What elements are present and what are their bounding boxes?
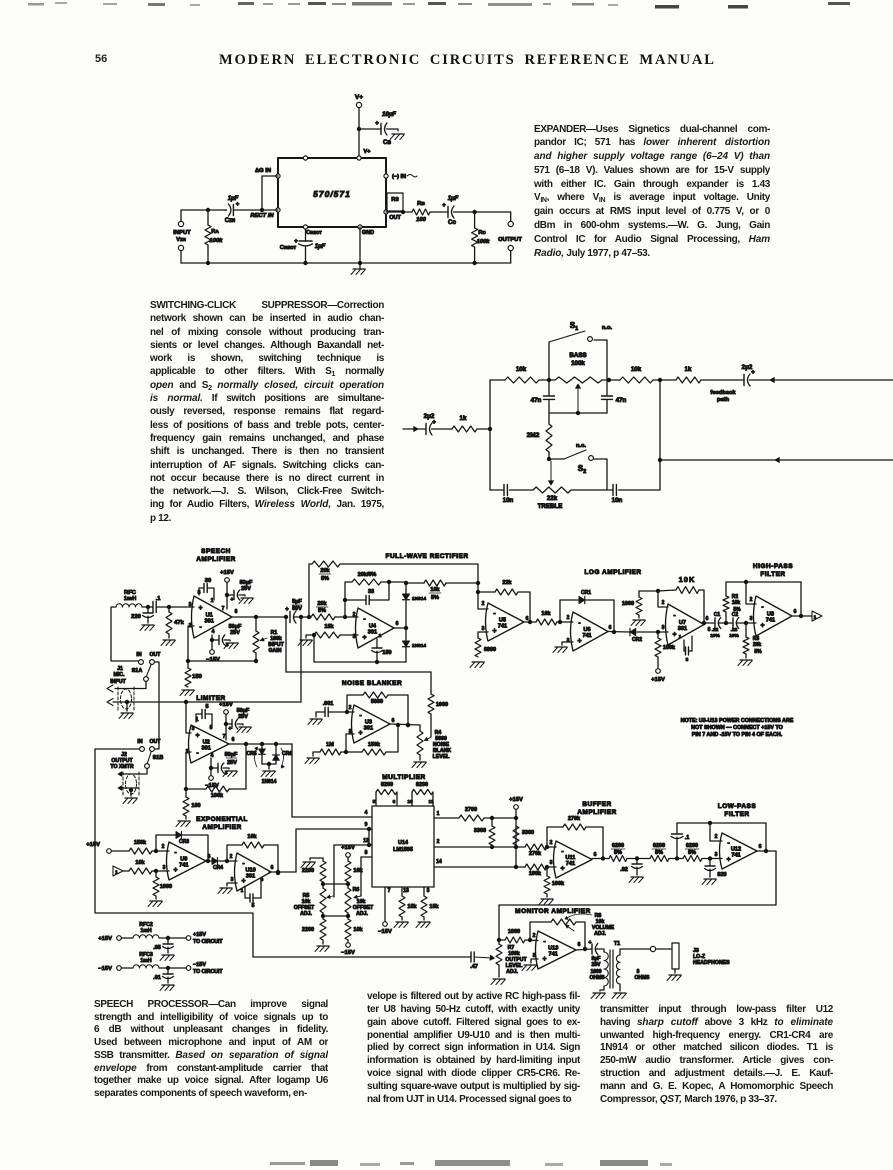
jack J3 plug <box>672 943 679 969</box>
ground under R3 <box>745 654 747 658</box>
ground under 47k <box>163 639 175 641</box>
jack J2 dashed body <box>126 774 137 794</box>
svg-text:+: + <box>358 730 362 737</box>
svg-text:9: 9 <box>365 822 368 828</box>
capacitor 220 to ground <box>147 607 149 613</box>
svg-text:CR4: CR4 <box>213 865 223 871</box>
U14 pin8 wire to R6 wiper <box>361 856 372 858</box>
svg-text:301: 301 <box>368 630 377 636</box>
resistor 2700 <box>459 815 484 821</box>
wire to 1k right <box>653 379 676 381</box>
svg-text:6: 6 <box>396 621 399 627</box>
svg-text:+15V: +15V <box>219 702 233 708</box>
svg-text:1mH: 1mH <box>124 596 137 602</box>
diode CR4 <box>212 858 217 865</box>
U12 pin2 drop <box>710 823 722 841</box>
resistor 1000 monitor <box>499 939 505 941</box>
pin top-left <box>303 156 307 160</box>
resistor 150k to +15V <box>655 638 661 657</box>
svg-text:5%: 5% <box>431 595 439 601</box>
svg-text:3: 3 <box>533 953 536 959</box>
svg-text:S2: S2 <box>578 464 586 475</box>
mic sleeve contact arrow <box>107 699 113 706</box>
svg-text:6200: 6200 <box>612 843 624 849</box>
svg-text:50V: 50V <box>292 606 302 612</box>
svg-text:301: 301 <box>202 746 211 752</box>
svg-text:-: - <box>174 850 177 857</box>
svg-text:150k: 150k <box>368 742 381 748</box>
wire to .1 node <box>669 858 683 860</box>
svg-text:1: 1 <box>211 598 214 604</box>
ground under 100k <box>546 894 548 897</box>
svg-text:2: 2 <box>349 705 352 711</box>
svg-text:8: 8 <box>365 850 368 856</box>
svg-text:301: 301 <box>205 619 214 625</box>
svg-text:feedback: feedback <box>710 390 736 396</box>
mic sleeve wire to limiter line <box>113 701 301 703</box>
svg-text:Cʀᴇᴄᴛ: Cʀᴇᴄᴛ <box>306 230 322 236</box>
resistor 100 exponential <box>185 789 187 797</box>
node R5 top <box>322 882 324 888</box>
svg-text:NOTE: U3-U13 POWER CONNECTIONS: NOTE: U3-U13 POWER CONNECTIONS ARE <box>681 718 794 724</box>
op-amp U2 301 <box>189 725 230 763</box>
svg-text:3: 3 <box>427 888 430 894</box>
U13 output <box>576 949 592 950</box>
resistor 3300 second <box>513 826 519 845</box>
svg-text:7: 7 <box>223 734 226 740</box>
svg-text:10k: 10k <box>430 587 440 593</box>
wire cap to T1 <box>595 949 604 952</box>
potentiometer R5 10k offset <box>320 888 326 913</box>
svg-text:13: 13 <box>403 888 409 894</box>
jack J2 sleeve dot <box>129 788 133 792</box>
svg-text:10k: 10k <box>631 366 642 373</box>
svg-text:2: 2 <box>567 615 570 621</box>
svg-text:HEADPHONES: HEADPHONES <box>693 960 730 966</box>
U7 output to C1 <box>704 622 715 624</box>
S1A wire to mic tip <box>115 682 146 689</box>
noise blanker feed wire <box>286 671 431 673</box>
resistor 1k input <box>452 426 477 432</box>
svg-text:1k: 1k <box>685 366 692 373</box>
svg-text:1: 1 <box>814 615 817 621</box>
wire to U4 pin2 <box>335 616 358 618</box>
svg-text:3: 3 <box>189 602 192 608</box>
wire RB to CO <box>430 211 448 213</box>
resistor 8200 right loop <box>411 792 413 806</box>
svg-text:10k: 10k <box>247 834 257 840</box>
svg-text:1: 1 <box>679 634 682 640</box>
mic tip contact arrow <box>107 685 113 692</box>
diode CR2 <box>630 628 636 635</box>
J2 ring arrow <box>118 786 122 791</box>
ground under .01 <box>162 984 174 986</box>
R5 wiper riser <box>333 845 335 897</box>
svg-text:NOISE BLANKER: NOISE BLANKER <box>342 680 402 687</box>
wire to 10k <box>123 870 129 872</box>
U7 comp cap pins <box>683 640 685 651</box>
svg-text:10k: 10k <box>732 600 741 606</box>
svg-text:10μF: 10μF <box>382 112 396 118</box>
svg-text:3300: 3300 <box>474 828 486 834</box>
input off-page triangle 1 <box>113 866 123 876</box>
svg-text:10k: 10k <box>135 860 145 866</box>
svg-text:+: + <box>432 419 436 426</box>
svg-text:6: 6 <box>393 799 396 805</box>
svg-text:150k: 150k <box>134 840 147 846</box>
wire gnd to 15k <box>306 635 314 638</box>
U14 pin14 wire <box>434 866 525 868</box>
resistor R3 20k 5% <box>745 623 747 637</box>
U2 pin4 down <box>210 758 212 775</box>
ground under R7 <box>498 965 500 977</box>
wire to U1 pin3 <box>156 606 194 608</box>
ground under 6800 <box>472 661 484 663</box>
ground under .02 <box>631 876 643 878</box>
svg-text:Cɪɴ: Cɪɴ <box>225 218 236 224</box>
svg-text:+: + <box>198 605 202 612</box>
svg-text:1μF: 1μF <box>315 244 326 250</box>
low-pass feedback vertical <box>765 823 767 851</box>
svg-text:15k: 15k <box>407 904 417 910</box>
wire U10 out up to U14 pin9 <box>296 829 372 872</box>
+15V terminal below 150k <box>656 669 661 674</box>
svg-text:301: 301 <box>246 874 255 880</box>
capacitor .1 bridge <box>676 840 678 859</box>
svg-text:1: 1 <box>241 888 244 894</box>
svg-text:6: 6 <box>578 942 581 948</box>
svg-text:AMPLIFIER: AMPLIFIER <box>202 824 242 831</box>
svg-text:Cʀᴇᴄᴛ: Cʀᴇᴄᴛ <box>280 245 297 251</box>
svg-text:5%: 5% <box>688 850 696 856</box>
resistor 47k to ground <box>168 607 170 612</box>
svg-text:n.c.: n.c. <box>576 443 586 449</box>
rail to 22k <box>510 489 534 491</box>
svg-text:741: 741 <box>498 624 507 630</box>
+15V to circuit terminal <box>186 936 191 941</box>
low-pass top rail <box>677 822 766 824</box>
svg-text:+: + <box>173 867 177 874</box>
svg-text:+: + <box>560 865 564 872</box>
svg-text:IN: IN <box>137 739 142 745</box>
pin2 drop wire <box>746 582 756 604</box>
svg-text:+: + <box>672 631 676 638</box>
J2 ring wire <box>121 787 138 789</box>
svg-text:6: 6 <box>526 616 529 622</box>
ground at CB <box>392 133 404 135</box>
svg-text:2: 2 <box>437 839 440 845</box>
U4 bottom loop <box>314 635 406 662</box>
svg-text:100k: 100k <box>211 793 224 799</box>
svg-text:1k: 1k <box>460 415 467 422</box>
wire to 150k <box>112 850 130 852</box>
S1B wire to J2 tip <box>121 769 147 775</box>
wire 1M to U3 pin3 <box>341 751 346 753</box>
U3 feedback 5600 <box>347 695 363 712</box>
svg-text:CR2: CR2 <box>632 637 642 643</box>
svg-text:2μ2: 2μ2 <box>424 413 435 420</box>
svg-text:6: 6 <box>235 609 238 615</box>
resistor 150 to ground <box>187 661 189 668</box>
U10 feedback 10k <box>227 845 242 861</box>
bypass cap 50uF U2 top <box>226 723 232 725</box>
U12 output <box>757 850 776 852</box>
scan artifacts bottom edge <box>270 1162 305 1165</box>
svg-text:20k: 20k <box>320 568 330 574</box>
wire CR4 to U10 <box>218 860 237 862</box>
ground at .001 cap <box>310 718 322 720</box>
diode 1N914 upper <box>405 583 407 593</box>
resistor R3 box <box>387 193 403 211</box>
svg-text:8: 8 <box>708 627 711 633</box>
wire 150k to U9 pin2 <box>152 850 169 852</box>
svg-text:FILTER: FILTER <box>760 571 785 578</box>
svg-text:AMPLIFIER: AMPLIFIER <box>196 556 236 563</box>
switch S1 left vertical <box>548 342 550 380</box>
pin CRECT bottom <box>303 225 307 229</box>
output terminal bottom <box>508 245 513 250</box>
wire to jack J3 <box>656 948 673 950</box>
svg-text:6: 6 <box>609 625 612 631</box>
diode CR5 clipper <box>261 744 263 749</box>
U2 output wire <box>229 743 292 745</box>
svg-text:ADJ.: ADJ. <box>506 969 518 975</box>
svg-text:+: + <box>726 857 730 864</box>
wire 150k to output <box>386 725 398 752</box>
svg-text:ΔG IN: ΔG IN <box>255 168 271 174</box>
svg-text:.22: .22 <box>712 627 719 633</box>
resistor 15k pin3 <box>423 887 425 896</box>
wire 1000 to 10K node <box>639 590 658 592</box>
svg-text:U14: U14 <box>398 840 408 846</box>
transformer T1 secondary <box>616 955 620 984</box>
capacitor 47n right <box>606 380 608 396</box>
U1 pin4 wire to -15V <box>211 635 213 649</box>
svg-text:+15V: +15V <box>220 570 234 576</box>
resistor 22k feedback U5 <box>478 591 495 593</box>
svg-text:C1: C1 <box>714 612 721 618</box>
wire to bass pot <box>539 379 555 381</box>
svg-text:+: + <box>542 956 546 963</box>
wire rfc to cap <box>142 606 153 608</box>
wire limiter input <box>186 702 191 733</box>
svg-text:−15V: −15V <box>341 950 355 956</box>
ground symbol <box>353 268 365 270</box>
svg-text:1000: 1000 <box>622 601 634 607</box>
bottom rail left <box>490 489 504 491</box>
potentiometer R1 100k input gain <box>255 617 257 631</box>
switch S2 contact <box>589 456 594 461</box>
resistor 2200 upper <box>322 858 324 861</box>
svg-text:8200: 8200 <box>416 782 428 788</box>
svg-text:.22: .22 <box>731 627 738 633</box>
U13 pin3 ground <box>531 959 538 963</box>
page number <box>95 53 107 65</box>
svg-text:.01: .01 <box>153 975 161 981</box>
node R5 bottom <box>322 913 324 919</box>
ground at 15k <box>300 639 312 641</box>
svg-text:6200: 6200 <box>686 843 698 849</box>
svg-text:EXPONENTIAL: EXPONENTIAL <box>196 816 248 823</box>
jack J1 ground <box>126 702 128 711</box>
wire OUT to RB <box>386 211 412 213</box>
U10 pin3 ground <box>227 883 237 886</box>
svg-text:.02: .02 <box>620 867 628 873</box>
svg-text:2: 2 <box>715 834 718 840</box>
svg-text:.05: .05 <box>153 945 161 951</box>
node R6 bottom <box>347 913 349 919</box>
svg-text:3: 3 <box>750 616 753 622</box>
potentiometer R6 10k offset <box>345 888 351 913</box>
svg-text:10n: 10n <box>503 497 514 504</box>
svg-text:V+: V+ <box>355 94 363 101</box>
wire 10k to U9 pin3 <box>152 870 169 872</box>
capacitor .01 <box>167 968 169 974</box>
R5 top ground <box>310 858 323 860</box>
svg-text:6: 6 <box>208 854 211 860</box>
svg-text:+15V: +15V <box>509 797 523 803</box>
svg-text:47n: 47n <box>616 397 627 404</box>
U8 output node <box>792 615 812 617</box>
svg-text:1: 1 <box>379 633 382 639</box>
bypass cap 50uF 25V at U1 top <box>227 594 234 596</box>
ground under pin3 15k <box>418 921 430 923</box>
ground under 100 <box>185 816 187 819</box>
svg-text:570/571: 570/571 <box>313 189 351 199</box>
svg-text:12: 12 <box>363 838 369 844</box>
svg-text:−15V: −15V <box>193 962 206 968</box>
resistor 100k input <box>525 864 547 870</box>
switch S1 contact <box>588 337 593 342</box>
resistor 10K log feedback <box>658 590 676 591</box>
diode CR3 feedback loop <box>156 835 176 851</box>
op-amp U12 741 <box>720 833 758 869</box>
running head title <box>219 52 715 69</box>
svg-text:2200: 2200 <box>302 927 314 933</box>
diode CR6 clipper <box>275 744 277 755</box>
svg-text:FILTER: FILTER <box>724 811 749 818</box>
node R6 top <box>347 882 349 888</box>
U1 output wire <box>232 616 286 618</box>
secondary terminal <box>650 946 655 951</box>
ground pin4 bypass U2 <box>225 770 237 772</box>
V+ supply terminal <box>356 102 361 107</box>
svg-text:5%: 5% <box>318 608 326 614</box>
ground under 2200 <box>322 940 324 944</box>
pin OUT <box>384 210 388 214</box>
svg-text:Cʙ: Cʙ <box>383 140 391 146</box>
svg-text:10%: 10% <box>729 633 739 639</box>
capacitor .1 coupling <box>152 602 154 613</box>
svg-text:+: + <box>228 726 231 732</box>
capacitor 10n left <box>503 485 505 496</box>
svg-text:.47: .47 <box>470 964 478 970</box>
svg-text:PIN 7 AND -15V TO PIN 4 OF EAC: PIN 7 AND -15V TO PIN 4 OF EACH. <box>692 732 783 738</box>
svg-text:TREBLE: TREBLE <box>538 503 563 510</box>
svg-text:1000: 1000 <box>508 929 520 935</box>
svg-text:LOG AMPLIFIER: LOG AMPLIFIER <box>584 569 641 576</box>
svg-text:6: 6 <box>594 852 597 858</box>
op-amp U11 741 <box>554 841 593 878</box>
T1 primary bottom to ground <box>600 986 604 991</box>
svg-text:5600: 5600 <box>371 699 383 705</box>
svg-text:OHMS: OHMS <box>635 975 651 981</box>
svg-text:301: 301 <box>678 626 687 632</box>
output off-page triangle 1 <box>812 611 822 621</box>
wire node down to U7 pin2 <box>658 591 668 607</box>
svg-text:+: + <box>492 628 496 635</box>
svg-text:25V: 25V <box>241 586 251 592</box>
svg-text:47n: 47n <box>531 397 542 404</box>
T1 secondary bottom <box>619 984 621 991</box>
svg-text:ADJ.: ADJ. <box>356 911 368 917</box>
pin (-) IN <box>384 174 388 178</box>
svg-text:8200: 8200 <box>381 782 393 788</box>
svg-text:TO CIRCUIT: TO CIRCUIT <box>193 939 223 945</box>
resistor 20k 5% input <box>311 614 335 620</box>
svg-text:S1A: S1A <box>132 668 143 674</box>
wire 10K to U7 output <box>699 590 704 623</box>
svg-text:OUT: OUT <box>389 215 401 221</box>
svg-text:1N914: 1N914 <box>412 643 426 649</box>
ground for pin4 bypass <box>226 642 238 644</box>
svg-text:-: - <box>359 713 362 720</box>
potentiometer R7 100k output level <box>498 940 500 944</box>
wire rectifier out down to U5 <box>478 592 488 609</box>
resistor 150k noise blanker <box>346 751 362 753</box>
clipper arc right <box>281 748 284 767</box>
inductor RFC2 1mH <box>122 937 134 939</box>
svg-text:1mH: 1mH <box>140 928 151 934</box>
output terminal top <box>510 212 512 222</box>
svg-text:6: 6 <box>759 844 762 850</box>
svg-text:R3: R3 <box>391 197 399 203</box>
svg-text:741: 741 <box>566 861 575 867</box>
svg-text:1000: 1000 <box>160 884 172 890</box>
U6 pin3 ground <box>562 642 573 645</box>
ground under 820 <box>704 878 716 880</box>
svg-text:270k: 270k <box>529 851 542 857</box>
svg-text:-: - <box>673 612 676 619</box>
svg-text:LIMITER: LIMITER <box>196 695 226 702</box>
U4 output wire <box>394 627 406 629</box>
resistor 1M <box>313 752 320 756</box>
svg-text:Vɪɴ: Vɪɴ <box>176 237 186 243</box>
svg-text:INPUT: INPUT <box>110 679 126 685</box>
clipper bottom join <box>262 763 276 765</box>
ground under 1000 exp <box>155 896 157 899</box>
svg-text:2M2: 2M2 <box>527 432 540 439</box>
wire CO to output <box>454 211 511 213</box>
U2 feedback 100k <box>186 752 191 789</box>
svg-text:25V: 25V <box>230 630 240 636</box>
wire 15k to U4 pin3 <box>340 634 358 636</box>
svg-text:OUT: OUT <box>150 652 162 658</box>
node after C2 <box>736 622 756 624</box>
left vertical wire <box>489 380 491 490</box>
U10 output wire <box>269 871 296 873</box>
wire to capacitor CB <box>359 128 381 130</box>
svg-text:T1: T1 <box>614 941 620 947</box>
ground for top bypass <box>241 597 253 599</box>
capacitor C2 .22 10% <box>732 618 734 628</box>
op-amp U13 741 <box>536 931 577 969</box>
svg-text:10: 10 <box>407 799 413 805</box>
potentiometer 22k TREBLE <box>533 487 571 493</box>
wire cap to R7 arrow <box>474 957 492 958</box>
svg-text:6: 6 <box>392 718 395 724</box>
inner feedback vertical <box>345 582 352 617</box>
